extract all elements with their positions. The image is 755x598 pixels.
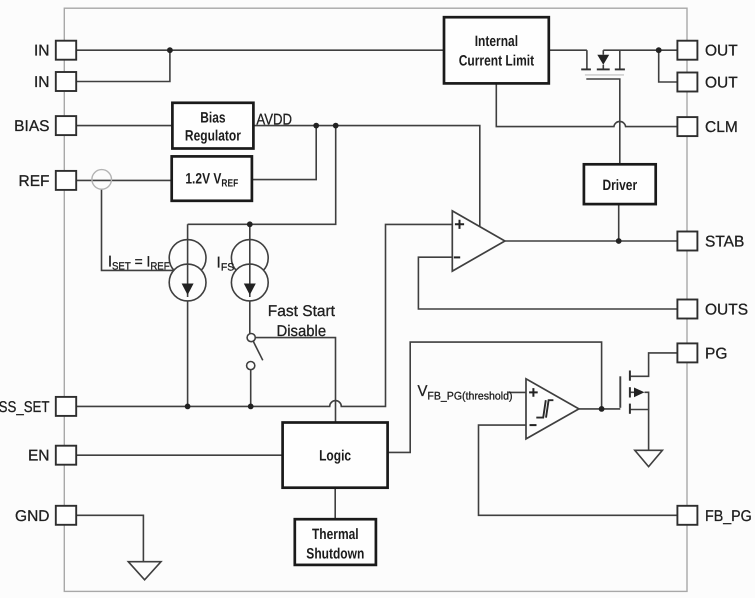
svg-text:Shutdown: Shutdown — [306, 545, 364, 562]
svg-text:Current Limit: Current Limit — [459, 52, 534, 69]
svg-text:OUTS: OUTS — [705, 302, 748, 319]
svg-text:REF: REF — [19, 173, 50, 190]
svg-text:FB_PG: FB_PG — [705, 508, 752, 525]
svg-text:Thermal: Thermal — [312, 526, 359, 543]
svg-text:PG: PG — [705, 345, 727, 362]
svg-text:CLM: CLM — [705, 119, 738, 136]
svg-text:SS_SET: SS_SET — [0, 399, 50, 416]
svg-text:Internal: Internal — [475, 33, 518, 50]
svg-text:Driver: Driver — [602, 177, 637, 194]
svg-text:Fast Start: Fast Start — [268, 303, 336, 320]
svg-text:Bias: Bias — [200, 109, 225, 126]
svg-text:EN: EN — [28, 448, 50, 465]
svg-text:VFB_PG(threshold): VFB_PG(threshold) — [418, 383, 513, 402]
svg-text:AVDD: AVDD — [256, 111, 292, 128]
svg-text:STAB: STAB — [705, 234, 744, 251]
svg-text:IN: IN — [34, 43, 50, 60]
svg-text:IN: IN — [34, 74, 50, 91]
svg-text:ISET = IREF: ISET = IREF — [108, 253, 170, 272]
svg-text:Disable: Disable — [277, 323, 327, 340]
svg-text:Regulator: Regulator — [185, 128, 241, 145]
svg-text:Logic: Logic — [319, 448, 351, 465]
svg-text:OUT: OUT — [705, 75, 738, 92]
svg-text:OUT: OUT — [705, 43, 738, 60]
svg-text:GND: GND — [15, 508, 49, 525]
svg-text:BIAS: BIAS — [14, 118, 49, 135]
